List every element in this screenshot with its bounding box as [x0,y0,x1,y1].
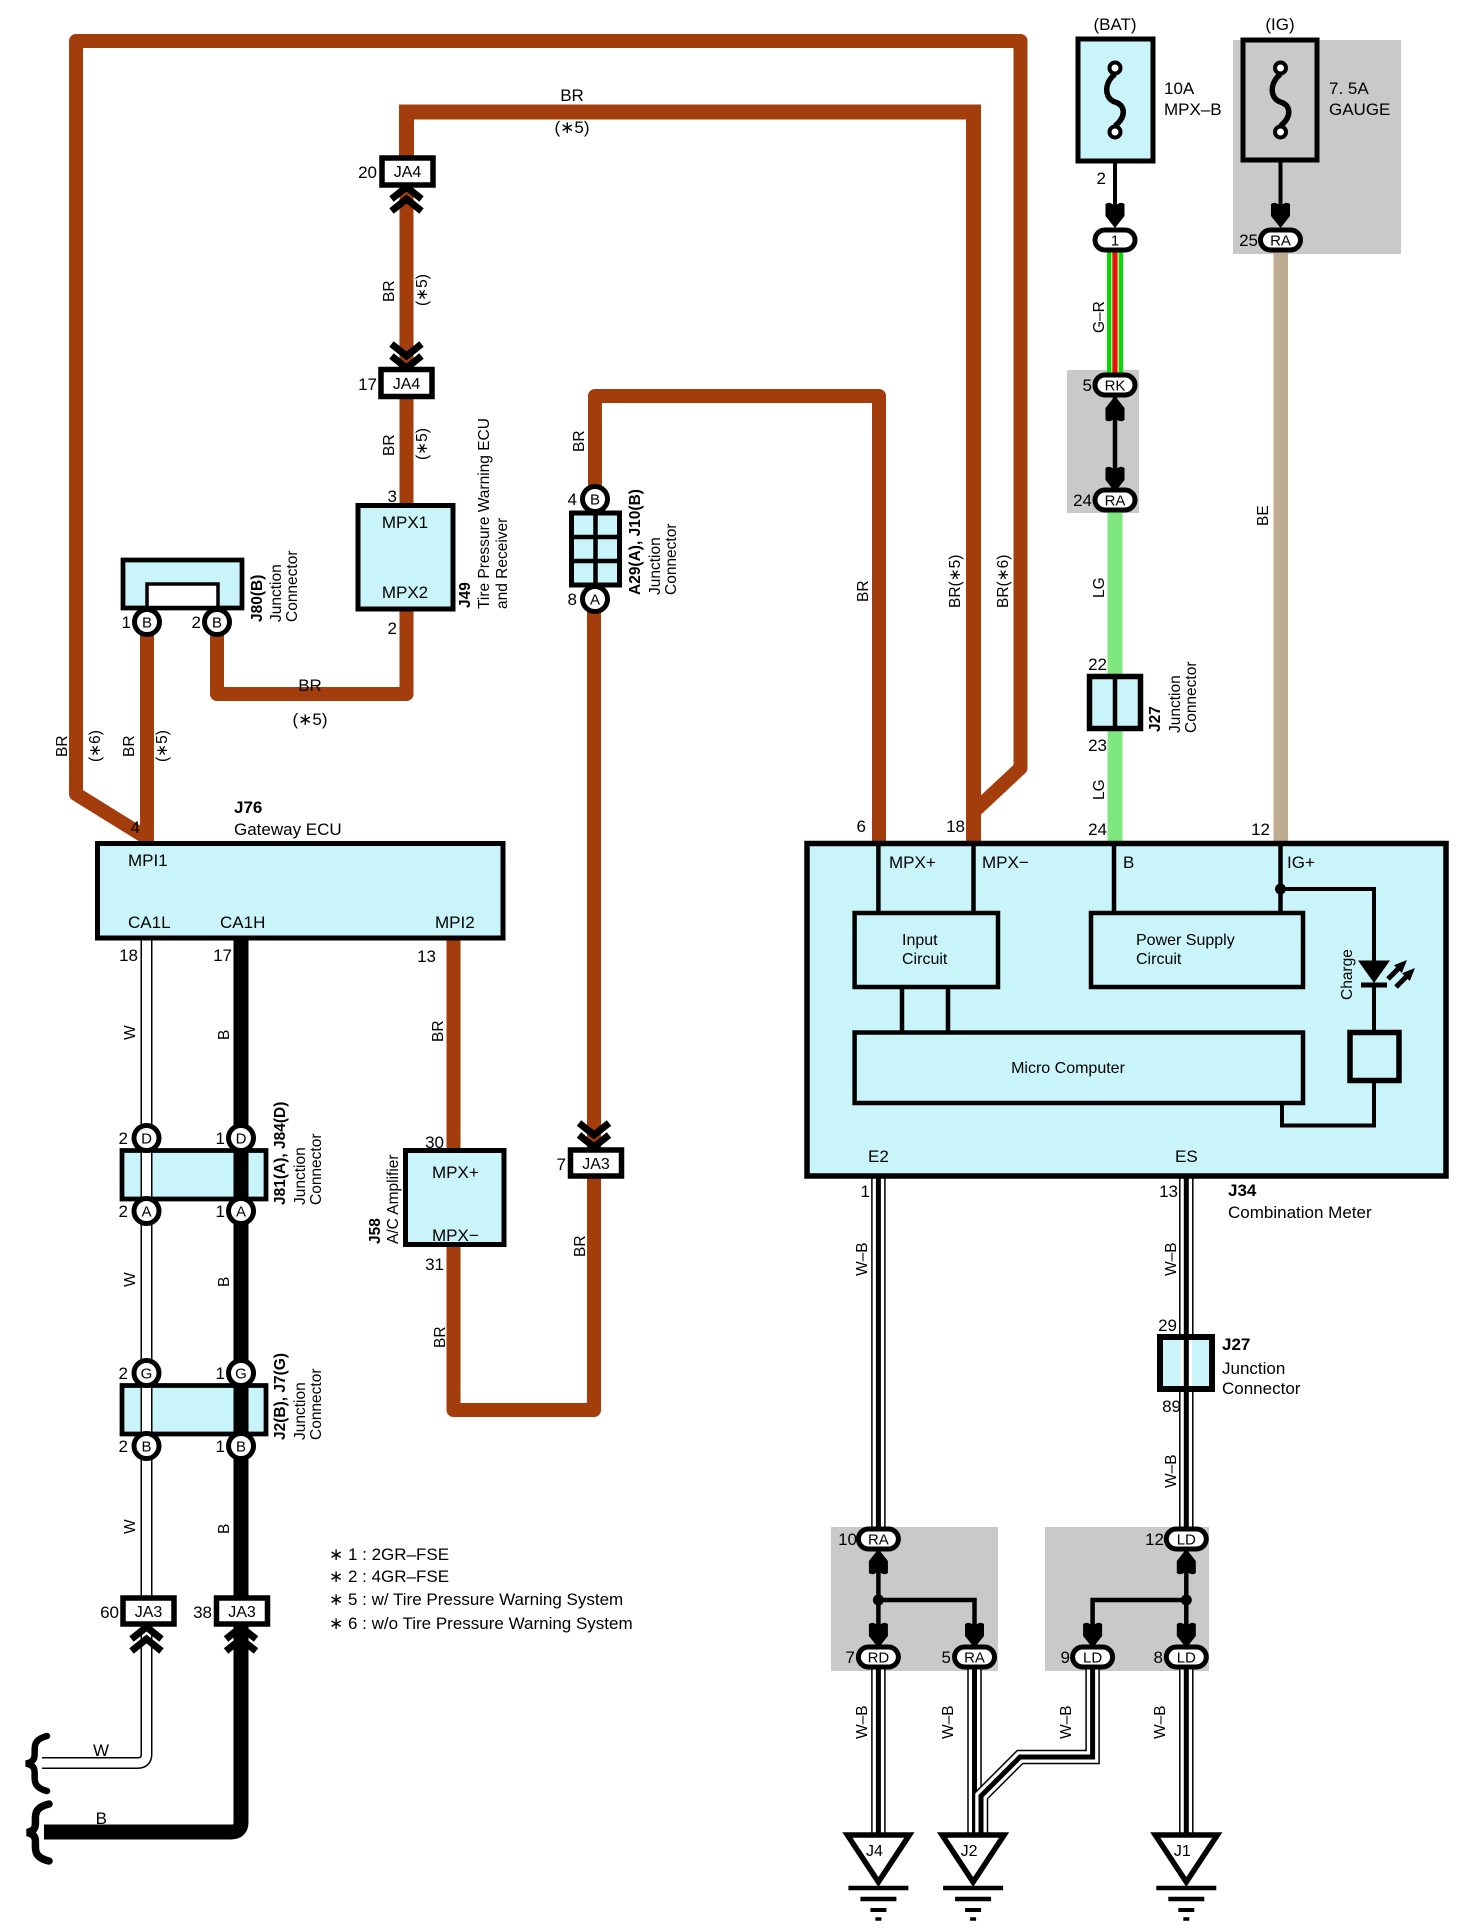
wire B J76 CA1H to J81 D [234,936,249,1126]
branch to RA5 [878,1600,974,1655]
wire BR J49 MPX2 to J80 [217,605,407,694]
harness brace W [26,1736,47,1791]
junction dot right [1181,1595,1192,1606]
svg-text:1: 1 [216,1129,225,1148]
svg-text:Junction: Junction [647,537,664,595]
terminal G2 J2 [134,1361,159,1386]
svg-text:G–R: G–R [1091,301,1108,333]
svg-text:4: 4 [568,490,577,509]
wire W-B LD9 to ground J2 [981,1664,1093,1836]
svg-text:J58: J58 [367,1218,384,1244]
shield oval LD 12 [1166,1529,1206,1549]
ground J4 [847,1835,909,1919]
internal lead IG+ pin12 to Power Supply [1278,846,1283,915]
svg-text:BR: BR [432,1326,449,1348]
svg-text:MPX–B: MPX–B [1164,100,1222,119]
svg-text:17: 17 [358,375,377,394]
gray block left grounds (RA/RD/RA) [831,1527,998,1671]
svg-text:8: 8 [568,590,577,609]
wire W J81 A to J2 G [141,1220,153,1361]
svg-text:CA1L: CA1L [128,913,171,932]
terminal D1 J81 [229,1126,254,1151]
connector JA4 pin 20 [382,158,433,185]
svg-text:20: 20 [358,163,377,182]
svg-text:RA: RA [1270,233,1291,250]
junction connector J80(B) [123,560,242,608]
gray block RK/RA [1067,370,1139,513]
svg-text:LG: LG [1091,779,1108,800]
wire W-B J34 E2 to RA10 [871,1174,886,1532]
wire B through J81 [234,1150,249,1196]
svg-text:BR: BR [572,1235,589,1257]
svg-text:18: 18 [946,817,965,836]
svg-text:2: 2 [192,613,201,632]
internal lead input-micro 1 [900,987,905,1032]
svg-text:2: 2 [1097,169,1106,188]
svg-text:A29(A), J10(B): A29(A), J10(B) [627,489,644,595]
svg-text:7. 5A: 7. 5A [1329,79,1369,98]
svg-text:Combination Meter: Combination Meter [1228,1203,1372,1222]
svg-text:(∗5): (∗5) [154,730,171,762]
branch to LD9 [1093,1600,1187,1655]
fuse box IG 7.5A GAUGE [1243,40,1317,160]
svg-text:J2: J2 [961,1843,978,1860]
fuse symbol 7.5A GAUGE [1272,63,1289,138]
wire B through J81 box [234,1150,249,1199]
gray block right grounds (LD) [1045,1527,1209,1671]
svg-text:B: B [216,1030,233,1040]
svg-text:3: 3 [388,487,397,506]
wire link RK to RA [1113,394,1118,492]
svg-text:D: D [236,1131,247,1148]
wire G-R [1107,249,1123,377]
ground J1 [1155,1835,1217,1919]
shield oval RA 24 [1095,490,1135,510]
svg-text:Connector: Connector [308,1133,325,1205]
svg-text:J2(B), J7(G): J2(B), J7(G) [272,1353,289,1440]
svg-text:1: 1 [861,1182,870,1201]
svg-text:89: 89 [1162,1397,1181,1416]
terminal B1 J2 [229,1434,254,1459]
svg-text:Connector: Connector [663,523,680,595]
link LD12 to LD8 [1184,1545,1189,1660]
svg-text:BR: BR [855,580,872,602]
svg-text:W–B: W–B [1163,1242,1180,1276]
arrow up into LD12 [1177,1549,1196,1574]
svg-text:2: 2 [119,1129,128,1148]
svg-text:13: 13 [417,947,436,966]
svg-text:23: 23 [1088,736,1107,755]
svg-text:7: 7 [846,1648,855,1667]
svg-text:Connector: Connector [308,1368,325,1440]
arrow into oval 1 [1106,203,1125,228]
svg-text:2: 2 [119,1437,128,1456]
svg-text:W–B: W–B [1163,1454,1180,1488]
svg-text:J80(B): J80(B) [249,575,266,622]
terminal B2 J2 [134,1434,159,1459]
svg-text:J76: J76 [234,798,262,817]
svg-text:GAUGE: GAUGE [1329,100,1390,119]
ECU box J58 A/C Amplifier [406,1151,505,1245]
svg-text:B: B [216,1524,233,1534]
svg-text:5: 5 [942,1648,951,1667]
junction connector J27 on LG wire [1090,676,1141,729]
svg-text:8: 8 [1154,1648,1163,1667]
svg-text:BR(∗6): BR(∗6) [995,555,1012,608]
svg-text:B: B [1123,853,1134,872]
gray block behind IG fuse [1233,40,1401,254]
svg-text:Connector: Connector [1222,1379,1301,1398]
svg-text:JA4: JA4 [393,376,421,393]
svg-text:MPX1: MPX1 [382,513,428,532]
wire W J76 CA1L to J81 D [141,936,153,1126]
terminal D2 J81 [134,1126,159,1151]
svg-text:LD: LD [1177,1532,1196,1549]
junction connector J81 border [122,1151,266,1200]
ECU box J49 Tire Pressure Warning ECU [358,506,453,610]
svg-text:RA: RA [1105,493,1126,510]
wire BR JA4 20-17-J49 MPX1 [400,150,414,510]
arrow down into RD7 [869,1623,888,1648]
svg-text:W: W [122,1025,139,1040]
svg-text:ES: ES [1175,1147,1198,1166]
wire W-B RD7 to ground J4 [871,1664,886,1836]
internal lead LED to resistor [1372,983,1376,1033]
fuse box BAT 10A MPX-B [1078,39,1153,161]
svg-text:Micro Computer: Micro Computer [1011,1060,1125,1077]
arrow down into LD8 [1177,1623,1196,1648]
resistor block (charge) [1350,1033,1399,1081]
svg-text:B: B [142,615,152,632]
wire W J2 B to JA3 60 [141,1458,153,1600]
wire W through J81 box [141,1150,153,1199]
svg-text:(IG): (IG) [1265,15,1294,34]
svg-text:Charge: Charge [1339,949,1356,1000]
svg-text:W–B: W–B [854,1242,871,1276]
internal lead input-micro 2 [946,987,951,1032]
arrow down into RA 24 [1106,467,1125,492]
ground J2 [942,1835,1004,1919]
svg-text:2: 2 [119,1364,128,1383]
svg-text:MPI1: MPI1 [128,851,168,870]
wire B J81 A to J2 G [234,1220,249,1361]
svg-text:13: 13 [1159,1182,1178,1201]
svg-text:Gateway ECU: Gateway ECU [234,820,342,839]
arrow down into LD9 [1083,1623,1102,1648]
svg-text:W: W [93,1741,109,1760]
svg-text:MPX+: MPX+ [432,1163,479,1182]
svg-text:(∗5): (∗5) [414,274,431,306]
svg-text:4: 4 [131,818,140,837]
svg-text:MPX+: MPX+ [889,853,936,872]
svg-text:∗ 1 : 2GR–FSE: ∗ 1 : 2GR–FSE [329,1545,449,1564]
svg-text:1: 1 [1111,233,1119,250]
block Micro Computer [855,1033,1303,1104]
LED arrows [1388,968,1407,987]
wire BR(*5) JA4 to J34 MPX- [407,112,974,846]
svg-text:J81(A), J84(D): J81(A), J84(D) [272,1102,289,1205]
svg-text:Junction: Junction [292,1147,309,1205]
internal lead resistor to Micro Computer [1282,1080,1374,1126]
junction dot left [873,1595,884,1606]
svg-text:W–B: W–B [1058,1705,1075,1739]
svg-text:(∗5): (∗5) [554,118,589,137]
svg-text:Connector: Connector [284,550,301,622]
arrow up into RA10 [869,1549,888,1574]
junction connector J2 border [122,1386,266,1435]
arrow up into RK [1106,396,1125,421]
svg-text:1: 1 [216,1202,225,1221]
svg-text:J34: J34 [1228,1181,1257,1200]
internal lead MPX- pin18 to Input Circuit [971,846,976,915]
svg-text:Power Supply: Power Supply [1136,932,1235,949]
wire BR A29 to J34 MPX+ [595,396,879,846]
svg-text:D: D [141,1131,152,1148]
svg-text:25: 25 [1239,231,1258,250]
wire BAT fuse to shield oval 1 [1113,158,1117,225]
terminal B A29 [583,487,608,512]
svg-text:BR: BR [54,735,71,757]
svg-text:Junction: Junction [1222,1359,1285,1378]
chevron below JA3 38 [226,1627,256,1639]
wire W JA3 60 to harness brace [42,1624,147,1763]
svg-text:JA3: JA3 [582,1156,610,1173]
svg-text:B: B [236,1439,246,1456]
svg-text:5: 5 [1083,376,1092,395]
svg-text:IG+: IG+ [1287,853,1315,872]
svg-text:12: 12 [1145,1530,1164,1549]
svg-text:MPX−: MPX− [982,853,1029,872]
junction dot IG+ [1275,884,1286,895]
svg-text:MPX−: MPX− [432,1226,479,1245]
LED charge (anode triangle) [1358,961,1390,984]
internal lead IG+ to charge LED [1281,889,1375,961]
svg-text:A: A [236,1204,246,1221]
svg-text:MPI2: MPI2 [435,913,475,932]
wire W-B J34 ES to LD12 through J27 [1179,1174,1194,1532]
svg-text:10A: 10A [1164,79,1195,98]
wire W through J2 [141,1385,153,1436]
junction connector J81(A) J84(D) [122,1151,266,1200]
svg-text:W–B: W–B [854,1705,871,1739]
junction connector J2(B) J7(G) [122,1386,266,1435]
shield oval RA 5 [955,1647,995,1667]
svg-text:J4: J4 [866,1843,883,1860]
wire W-B RA5 to ground J2 [967,1664,982,1836]
svg-text:W: W [122,1519,139,1534]
svg-text:JA3: JA3 [135,1604,163,1621]
svg-text:A/C Amplifier: A/C Amplifier [385,1154,402,1244]
internal lead B pin24 to Power Supply [1112,846,1117,915]
svg-text:W–B: W–B [1152,1705,1169,1739]
svg-text:G: G [235,1366,247,1383]
connector JA3 pin 38 [217,1598,268,1624]
terminal B1 J80 [135,610,160,635]
svg-text:W–B: W–B [940,1705,957,1739]
svg-text:A: A [141,1204,151,1221]
wire BR(*6) loop J76 MPI1 to J34 MPX- [76,41,1021,846]
svg-text:RA: RA [868,1532,889,1549]
svg-text:24: 24 [1073,491,1092,510]
svg-text:9: 9 [1061,1648,1070,1667]
svg-text:2: 2 [388,619,397,638]
svg-text:Junction: Junction [292,1382,309,1440]
svg-text:∗ 6 : w/o Tire Pressure Warnin: ∗ 6 : w/o Tire Pressure Warning System [329,1614,633,1633]
harness brace B [27,1804,49,1861]
wire BR J76 MPI2 to J58 MPX+ [447,936,461,1152]
svg-text:B: B [216,1277,233,1287]
svg-text:Circuit: Circuit [902,951,948,968]
terminal A1 J81 [229,1199,254,1224]
terminal B2 J80 [205,610,230,635]
svg-text:1: 1 [122,613,131,632]
junction connector J27 on W-B wire [1160,1337,1212,1389]
shield oval RA 10 [858,1529,898,1549]
shield oval RK 5 [1095,375,1135,395]
svg-text:Circuit: Circuit [1136,951,1182,968]
svg-text:BR: BR [571,430,588,452]
svg-text:24: 24 [1088,820,1107,839]
svg-text:W: W [122,1272,139,1287]
shield oval LD 9 [1073,1647,1113,1667]
wire BR J80 to J76 MPI1 pin4 [140,634,154,846]
block Input Circuit [855,913,998,987]
svg-text:Junction: Junction [1167,675,1184,733]
svg-text:A: A [590,592,600,609]
junction connector A29(A) J10(B) [572,513,620,585]
svg-text:LD: LD [1083,1650,1102,1667]
ECU box J76 Gateway ECU [98,844,504,939]
svg-text:30: 30 [425,1133,444,1152]
svg-text:BR: BR [121,735,138,757]
svg-text:2: 2 [119,1202,128,1221]
wire W through J2 box [141,1385,153,1434]
svg-text:J27: J27 [1147,706,1164,732]
svg-text:BR: BR [381,434,398,456]
svg-text:LD: LD [1177,1650,1196,1667]
svg-text:Input: Input [902,932,938,949]
wire W-B LD8 to ground J1 [1179,1664,1194,1836]
svg-text:7: 7 [557,1155,566,1174]
svg-text:RA: RA [964,1650,985,1667]
svg-text:BR(∗5): BR(∗5) [947,555,964,608]
svg-text:(∗5): (∗5) [414,428,431,460]
svg-text:18: 18 [119,946,138,965]
svg-text:BR: BR [560,86,584,105]
connector JA4 pin 17 [381,370,432,397]
shield oval RD 7 [858,1647,898,1667]
svg-text:(∗6): (∗6) [87,730,104,762]
svg-text:Connector: Connector [1183,661,1200,733]
fuse symbol 10A MPX-B [1107,63,1124,138]
shield oval 1 [1095,230,1135,250]
svg-text:B: B [96,1809,107,1828]
svg-text:17: 17 [213,946,232,965]
svg-text:B: B [141,1439,151,1456]
svg-text:CA1H: CA1H [220,913,265,932]
wire B through J2 box [234,1385,249,1434]
wire B through J2 [234,1385,249,1436]
svg-text:∗ 5 : w/ Tire Pressure Warning: ∗ 5 : w/ Tire Pressure Warning System [329,1590,623,1609]
shield oval RA 25 [1261,230,1301,250]
wire BR J58 MPX- loop to A29 [454,610,595,1410]
svg-text:JA3: JA3 [228,1604,256,1621]
svg-text:(BAT): (BAT) [1093,15,1136,34]
shield oval LD 8 [1166,1647,1206,1667]
svg-text:1: 1 [216,1364,225,1383]
svg-text:60: 60 [100,1603,119,1622]
terminal A A29 [583,587,608,612]
svg-text:BR: BR [430,1020,447,1042]
svg-text:E2: E2 [868,1147,889,1166]
svg-text:LG: LG [1091,577,1108,598]
svg-text:BR: BR [381,280,398,302]
svg-text:B: B [212,615,222,632]
connector JA3 pin 7 [571,1150,622,1176]
arrow down into RA5 [965,1623,984,1648]
svg-text:31: 31 [425,1255,444,1274]
chevron into JA3 7 [579,1135,609,1147]
svg-text:RD: RD [868,1650,890,1667]
wire BE RA25 to J34 IG+ [1274,249,1289,846]
LED cathode bar [1361,983,1387,988]
terminal A2 J81 [134,1199,159,1224]
wire LG RA24 to J34 B pin24 [1108,508,1123,846]
chevron into JA4 17 [392,356,422,368]
svg-text:J49: J49 [457,582,474,608]
svg-text:and Receiver: and Receiver [494,518,511,609]
svg-text:6: 6 [857,817,866,836]
svg-text:12: 12 [1251,820,1270,839]
svg-text:B: B [590,492,600,509]
svg-text:MPX2: MPX2 [382,583,428,602]
svg-text:∗ 2 : 4GR–FSE: ∗ 2 : 4GR–FSE [329,1567,449,1586]
svg-text:38: 38 [193,1603,212,1622]
svg-text:BE: BE [1255,505,1272,526]
link RA10 to RD7 [876,1545,881,1660]
ECU box J34 Combination Meter [807,844,1446,1177]
svg-text:JA4: JA4 [394,164,422,181]
block Power Supply Circuit [1091,913,1303,987]
svg-text:(∗5): (∗5) [292,710,327,729]
chevron into JA4 20 [392,187,422,199]
wire B JA3 38 to harness brace [44,1624,241,1832]
svg-text:J27: J27 [1222,1335,1250,1354]
connector JA3 pin 60 [123,1598,174,1624]
svg-text:1: 1 [216,1437,225,1456]
terminal G1 J2 [229,1361,254,1386]
svg-text:G: G [141,1366,153,1383]
wire B J2 B to JA3 38 [234,1458,249,1600]
internal lead MPX+ pin6 to Input Circuit [876,846,881,915]
svg-text:Junction: Junction [268,564,285,622]
svg-text:22: 22 [1088,655,1107,674]
svg-text:Tire Pressure Warning ECU: Tire Pressure Warning ECU [476,418,493,609]
wire W through J81 [141,1150,153,1196]
chevron below JA3 60 [132,1627,162,1639]
svg-text:BR: BR [298,676,322,695]
svg-text:RK: RK [1105,378,1126,395]
svg-text:29: 29 [1158,1316,1177,1335]
wire IG fuse to RA 25 [1279,158,1283,225]
svg-text:10: 10 [838,1530,857,1549]
arrow into RA 25 [1271,203,1290,228]
svg-text:J1: J1 [1174,1843,1191,1860]
